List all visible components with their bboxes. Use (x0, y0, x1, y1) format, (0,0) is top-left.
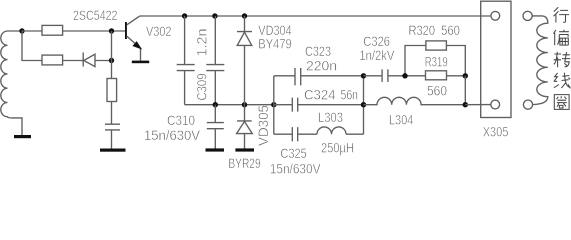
wire (63, 60, 84, 62)
inductor L303 (317, 127, 364, 134)
deflection yoke plug pin bottom (523, 100, 532, 109)
capacitor C309 (left section) (177, 16, 195, 105)
wire (465, 104, 491, 106)
svg-text:560: 560 (427, 84, 447, 100)
junction dot (109, 58, 114, 63)
svg-text:15n/630V: 15n/630V (144, 128, 200, 144)
svg-text:L304: L304 (389, 113, 413, 129)
wire collector top rail (140, 15, 491, 17)
node A junction dot (19, 28, 24, 33)
svg-text:X305: X305 (483, 125, 509, 141)
junction dot (271, 102, 276, 107)
label 圈 (quan) hand-drawn (554, 95, 569, 110)
svg-text:15n/630V: 15n/630V (270, 161, 321, 177)
svg-text:R320: R320 (409, 23, 436, 39)
wire (111, 130, 113, 149)
svg-text:R319: R319 (425, 54, 448, 70)
wire (111, 31, 113, 79)
junction dot (361, 102, 366, 107)
resistor R319 (405, 71, 465, 80)
resistor (base speed-up) (42, 55, 63, 65)
svg-text:C310: C310 (167, 113, 195, 129)
junction dot (242, 13, 247, 18)
junction dot (463, 73, 468, 78)
ground (emitter) (132, 61, 149, 64)
ground (206, 148, 225, 151)
svg-text:VD305: VD305 (255, 105, 271, 146)
label 线 (xian) hand-drawn (554, 73, 571, 89)
connector X305 (481, 1, 511, 117)
svg-text:L303: L303 (318, 110, 343, 126)
wire (111, 102, 113, 125)
capacitor C310 (207, 105, 224, 150)
svg-text:C309: C309 (193, 73, 209, 100)
ground (235, 148, 254, 151)
junction dot (402, 73, 407, 78)
capacitor C324 (274, 98, 364, 112)
wire (464, 76, 466, 105)
svg-text:BY479: BY479 (258, 36, 291, 52)
inductor L304 (364, 97, 466, 104)
resistor R320 (405, 41, 465, 76)
diode VD305 (237, 105, 253, 150)
svg-text:C325: C325 (280, 146, 306, 162)
junction dot (212, 13, 217, 18)
junction dot (182, 13, 187, 18)
resistor (base-emitter) (107, 79, 117, 102)
ground (14, 135, 31, 138)
wire ladder right rail (363, 76, 365, 134)
svg-text:220n: 220n (306, 58, 337, 74)
junction dot (109, 28, 114, 33)
capacitor (base network) (105, 124, 120, 130)
transistor V302 2SC5422 (125, 16, 141, 60)
junction dot (213, 102, 218, 107)
svg-text:2SC5422: 2SC5422 (73, 8, 118, 24)
junction dot (361, 73, 366, 78)
label 转 (zhuan) hand-drawn (554, 52, 571, 67)
capacitor C326 (364, 69, 406, 82)
label 偏 (pian) hand-drawn (554, 30, 569, 46)
capacitor C309 (right section) (206, 16, 224, 105)
resistor (base series) (42, 25, 63, 35)
wire (95, 60, 112, 62)
wire mid bus (185, 104, 274, 106)
svg-text:V302: V302 (146, 24, 172, 40)
wire (63, 30, 126, 32)
capacitor C323 (274, 68, 364, 85)
wire (22, 31, 42, 61)
ground (100, 149, 126, 152)
svg-text:C324: C324 (304, 88, 336, 104)
svg-text:56n: 56n (341, 88, 359, 104)
label 行 (hang) hand-drawn (554, 7, 570, 22)
wire ladder left rail (273, 76, 275, 134)
driver transformer secondary winding (1, 31, 22, 135)
svg-text:1.2n: 1.2n (194, 29, 210, 57)
wire (22, 30, 42, 32)
diode VD304 (237, 16, 252, 105)
junction dot (463, 102, 468, 107)
svg-text:1n/2kV: 1n/2kV (359, 48, 394, 64)
svg-text:250µH: 250µH (321, 141, 354, 157)
junction dot (242, 102, 247, 107)
svg-text:BYR29: BYR29 (228, 156, 260, 172)
deflection yoke plug pin top (523, 11, 532, 20)
svg-text:560: 560 (441, 23, 460, 39)
diode (base) (83, 53, 95, 67)
capacitor C325 (274, 127, 317, 141)
deflection yoke coil (532, 16, 548, 105)
